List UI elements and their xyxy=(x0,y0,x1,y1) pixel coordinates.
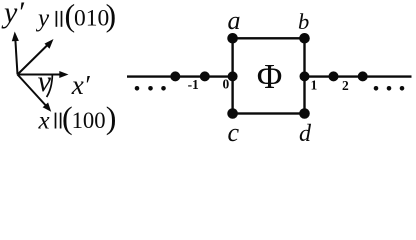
svg-text:ν: ν xyxy=(38,65,52,98)
node c dot (bottom-left corner) xyxy=(227,108,238,119)
chain site dot 2 xyxy=(329,71,339,81)
svg-text:y′: y′ xyxy=(1,0,24,29)
chain site dot 3 xyxy=(358,71,368,81)
axis arrow y parallel (010) xyxy=(18,39,54,75)
svg-text:0: 0 xyxy=(223,77,230,92)
angle arc between x' and x axes xyxy=(47,74,53,97)
svg-text:010: 010 xyxy=(74,5,109,31)
right ellipsis dot 2 xyxy=(387,86,392,91)
svg-text:x′: x′ xyxy=(71,70,91,100)
svg-text:a: a xyxy=(228,6,241,35)
node a dot (top-left corner) xyxy=(227,33,238,44)
svg-text:2: 2 xyxy=(342,78,349,93)
right ellipsis dot 1 xyxy=(374,86,379,91)
node d dot (bottom-right corner) xyxy=(299,108,310,119)
plaquette square xyxy=(233,38,305,113)
chain site dot -2 xyxy=(170,71,180,81)
axis arrow x' xyxy=(18,71,69,78)
svg-text:b: b xyxy=(298,9,309,34)
svg-text:Φ: Φ xyxy=(257,57,283,96)
left ellipsis dot 2 xyxy=(148,86,153,91)
chain wire right segment xyxy=(304,75,412,77)
chain site dot 0 xyxy=(228,71,238,81)
svg-text:d: d xyxy=(299,121,312,145)
axis arrow y' xyxy=(12,32,19,75)
svg-text:100: 100 xyxy=(72,108,106,134)
parallel bars of x||(100) xyxy=(56,113,61,129)
svg-text:x: x xyxy=(38,107,50,134)
chain wire left segment xyxy=(127,75,234,77)
left ellipsis dot 3 xyxy=(161,86,166,91)
chain site dot -1 xyxy=(200,71,210,81)
right ellipsis dot 3 xyxy=(400,86,405,91)
svg-text:): ) xyxy=(106,100,117,136)
svg-text:1: 1 xyxy=(311,77,318,92)
parallel bars of y||(010) xyxy=(56,11,61,27)
node b dot (top-right corner) xyxy=(299,33,310,44)
svg-text:c: c xyxy=(228,118,240,145)
svg-text:): ) xyxy=(106,0,117,33)
axis arrow x parallel (100) xyxy=(18,75,52,112)
chain site dot 1 xyxy=(300,71,310,81)
left ellipsis dot 1 xyxy=(135,86,140,91)
svg-text:-1: -1 xyxy=(188,77,199,92)
svg-text:y: y xyxy=(35,5,50,32)
